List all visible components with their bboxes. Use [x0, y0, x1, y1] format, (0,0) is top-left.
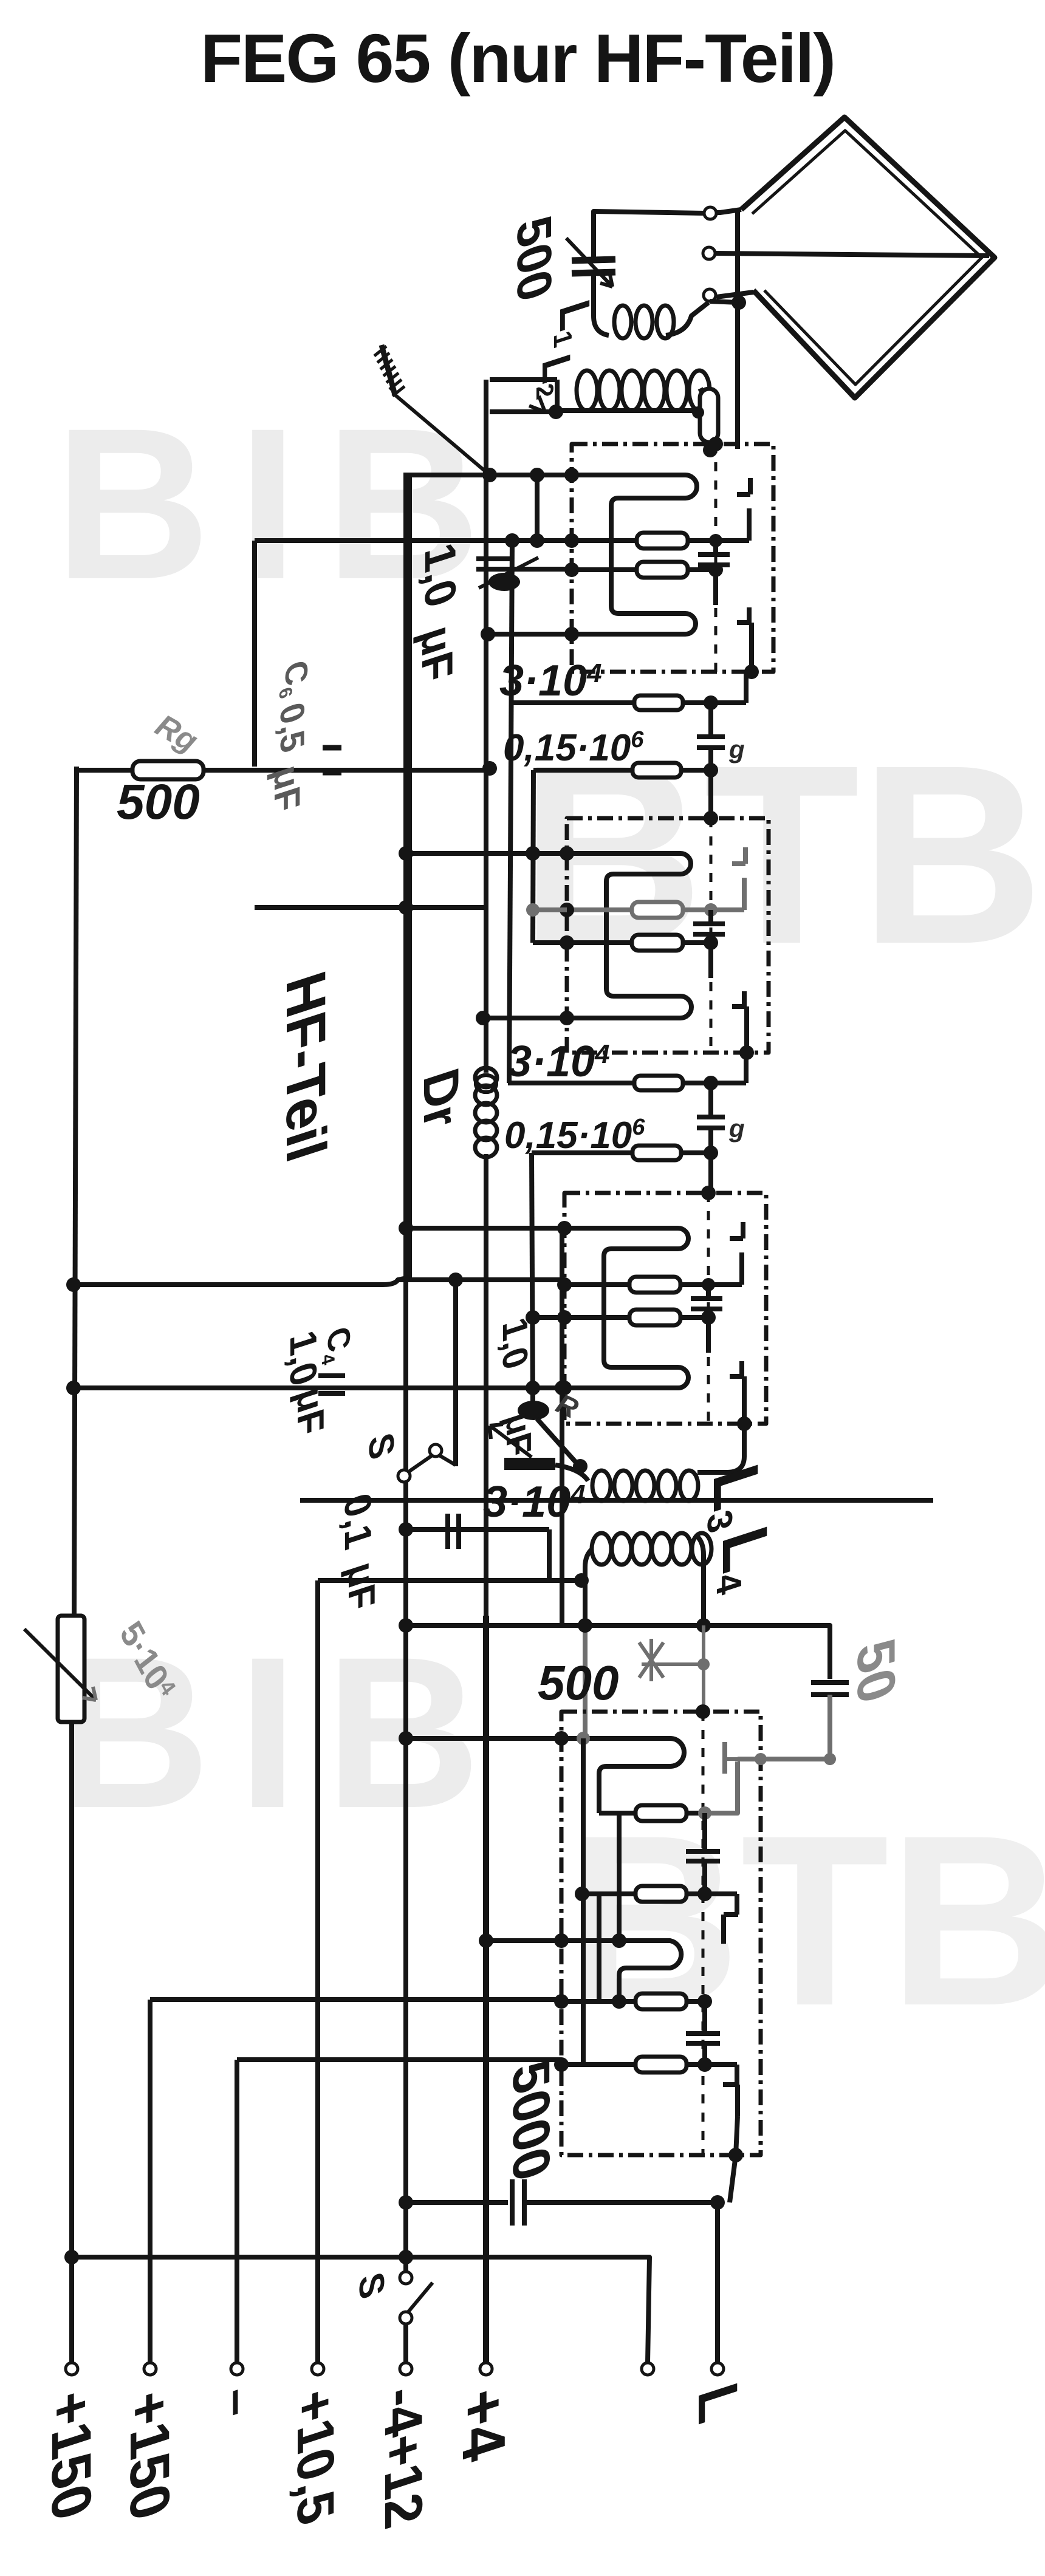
svg-text:3·104: 3·104: [483, 1478, 586, 1526]
svg-text:5000: 5000: [502, 2053, 560, 2188]
svg-text:+150: +150: [118, 2382, 180, 2527]
svg-text:0,15·106: 0,15·106: [504, 1115, 645, 1156]
svg-text:500: 500: [538, 1656, 618, 1710]
svg-text:3·104: 3·104: [507, 1037, 610, 1086]
svg-text:HF-Teil: HF-Teil: [275, 964, 337, 1169]
svg-text:-4+12: -4+12: [374, 2377, 433, 2535]
svg-text:500: 500: [117, 774, 200, 830]
svg-text:3·104: 3·104: [499, 657, 602, 705]
svg-text:+10,5: +10,5: [286, 2381, 344, 2532]
svg-text:BTB: BTB: [565, 1785, 1045, 2056]
svg-text:0,15·106: 0,15·106: [503, 727, 644, 769]
svg-text:g: g: [728, 1114, 745, 1143]
svg-text:+150: +150: [40, 2382, 102, 2527]
svg-text:g: g: [728, 735, 745, 764]
svg-text:FEG 65 (nur HF-Teil): FEG 65 (nur HF-Teil): [200, 20, 835, 97]
